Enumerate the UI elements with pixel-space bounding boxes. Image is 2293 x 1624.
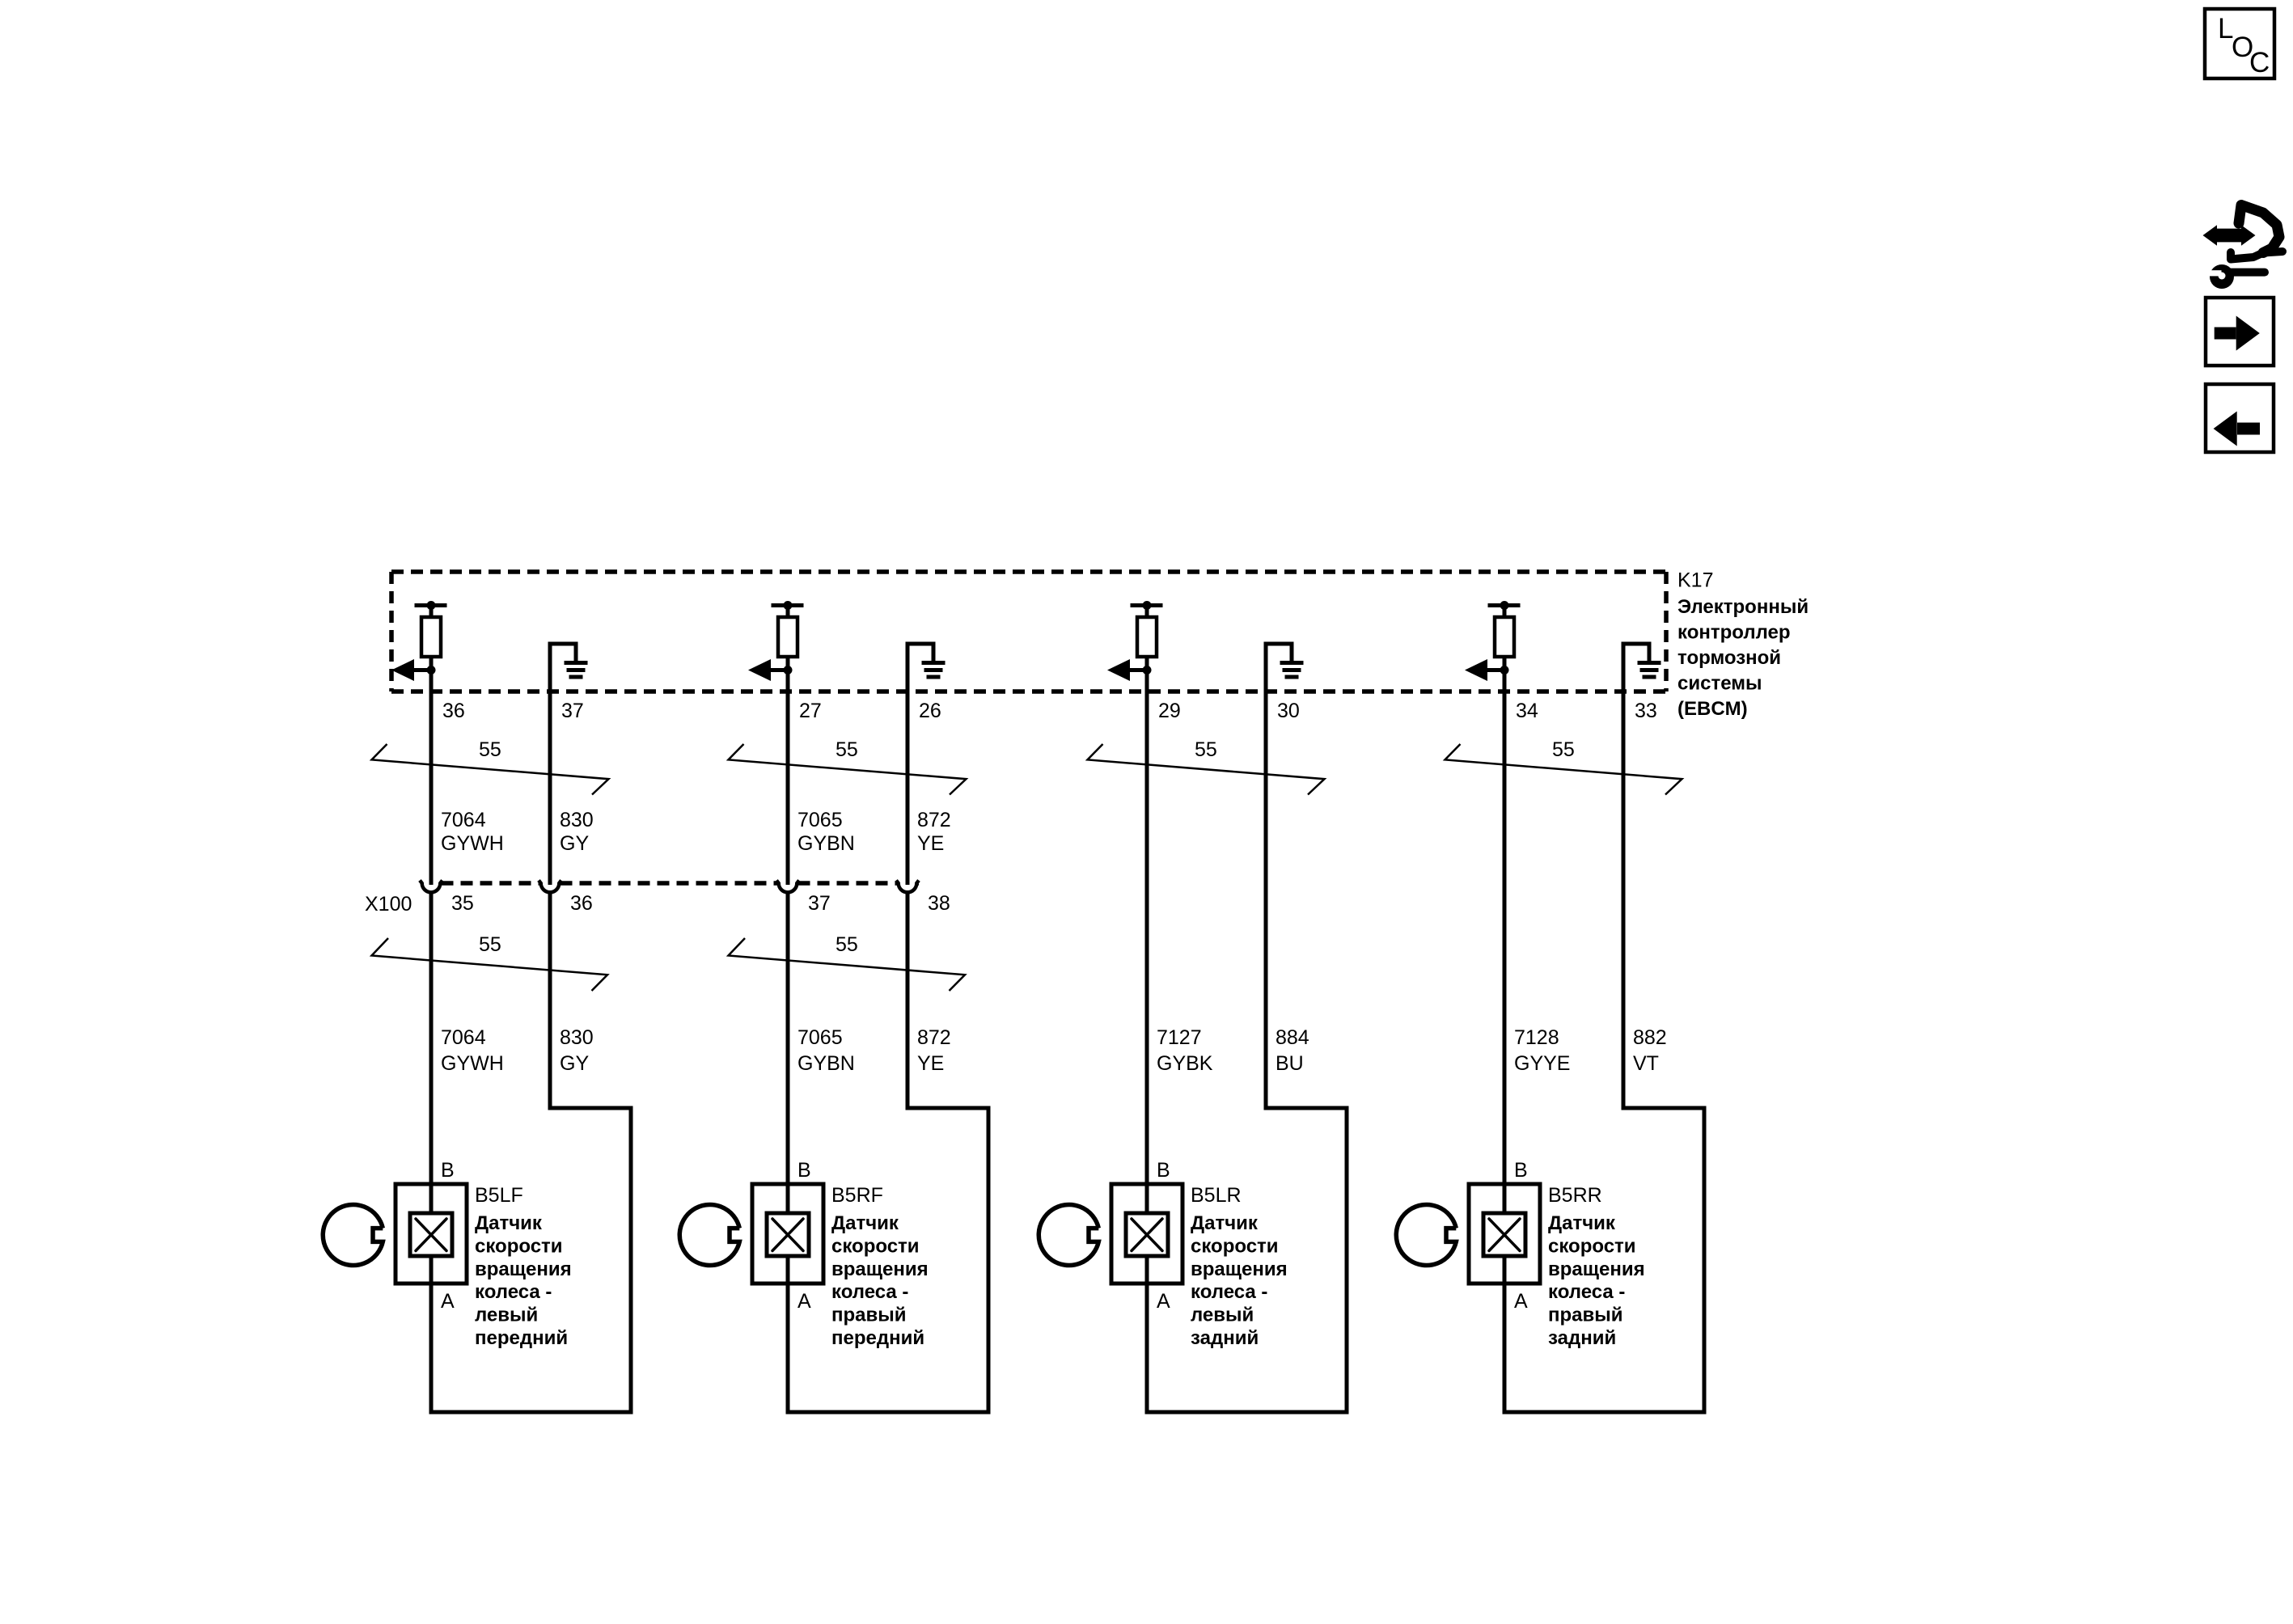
output arrow pair 1 xyxy=(404,668,431,672)
svg-text:левый: левый xyxy=(475,1305,538,1326)
svg-text:задний: задний xyxy=(1191,1327,1259,1349)
wire ground pair 3: down, jog right, down, bottom run to sensor pin A xyxy=(1147,691,1347,1412)
wheel speed sensor B5LF body xyxy=(396,1184,467,1284)
svg-text:7065: 7065 xyxy=(797,1026,843,1049)
harness 55 crossing upper pair 2 xyxy=(729,744,967,795)
svg-text:правый: правый xyxy=(1548,1305,1623,1326)
svg-text:скорости: скорости xyxy=(1548,1235,1636,1257)
svg-text:36: 36 xyxy=(570,892,593,915)
harness 55 crossing upper pair 1 xyxy=(372,744,609,795)
svg-text:27: 27 xyxy=(799,700,822,722)
output arrow pair 4 xyxy=(1478,668,1504,672)
svg-text:колеса -: колеса - xyxy=(1191,1281,1267,1303)
harness 55 crossing lower pair 1 xyxy=(372,938,608,991)
svg-text:B5LF: B5LF xyxy=(475,1184,523,1207)
svg-text:55: 55 xyxy=(836,933,858,956)
svg-text:A: A xyxy=(797,1290,811,1313)
resistor (EBCM internal) pair 1 xyxy=(415,603,447,607)
svg-text:7065: 7065 xyxy=(797,809,843,831)
junction dot pair 2 xyxy=(784,666,793,675)
svg-text:контроллер: контроллер xyxy=(1677,622,1791,644)
svg-text:вращения: вращения xyxy=(831,1258,929,1280)
wheel speed sensor B5LR body xyxy=(1111,1184,1182,1284)
svg-text:GY: GY xyxy=(560,832,589,855)
svg-text:(EBCM): (EBCM) xyxy=(1677,698,1748,720)
svg-text:X100: X100 xyxy=(365,893,412,916)
svg-text:B: B xyxy=(1514,1159,1528,1182)
svg-text:GYWH: GYWH xyxy=(441,1052,504,1075)
svg-text:B: B xyxy=(441,1159,455,1182)
svg-text:K17: K17 xyxy=(1677,569,1713,592)
svg-text:VT: VT xyxy=(1633,1052,1659,1075)
svg-text:вращения: вращения xyxy=(1548,1258,1645,1280)
svg-text:GYYE: GYYE xyxy=(1514,1052,1570,1075)
svg-text:38: 38 xyxy=(928,892,950,915)
tone wheel (notched circle) B5LR xyxy=(1039,1205,1098,1266)
wire ground pair 2 upper segment xyxy=(906,691,910,885)
X100 pin cup on wire 1122 xyxy=(896,881,919,893)
svg-text:830: 830 xyxy=(560,1026,594,1049)
svg-text:GY: GY xyxy=(560,1052,589,1075)
tone wheel (notched circle) B5RR xyxy=(1396,1205,1456,1266)
svg-text:C: C xyxy=(2249,47,2270,78)
harness 55 crossing upper pair 3 xyxy=(1088,744,1325,795)
svg-text:YE: YE xyxy=(917,832,944,855)
wire B (signal) pair 2 upper segment xyxy=(786,691,790,885)
sensor element (boxed X) B5LR xyxy=(1126,1213,1168,1256)
svg-text:55: 55 xyxy=(1552,738,1575,761)
svg-text:Датчик: Датчик xyxy=(831,1212,899,1234)
svg-text:33: 33 xyxy=(1635,700,1657,722)
svg-text:правый: правый xyxy=(831,1305,907,1326)
svg-text:скорости: скорости xyxy=(475,1235,563,1257)
ground symbol (EBCM internal) pair 2 xyxy=(907,644,933,691)
wheel speed sensor B5RF body xyxy=(752,1184,823,1284)
svg-text:37: 37 xyxy=(561,700,584,722)
svg-text:872: 872 xyxy=(917,1026,951,1049)
svg-text:55: 55 xyxy=(479,738,501,761)
svg-text:B5RR: B5RR xyxy=(1548,1184,1602,1207)
junction dot pair 1 xyxy=(427,666,436,675)
svg-text:задний: задний xyxy=(1548,1327,1616,1349)
backward arrow box xyxy=(2206,384,2274,452)
svg-text:системы: системы xyxy=(1677,673,1762,695)
svg-text:30: 30 xyxy=(1277,700,1300,722)
wire ground pair 4: down, jog right, down, bottom run to sensor pin A xyxy=(1504,691,1704,1412)
svg-text:55: 55 xyxy=(479,933,501,956)
svg-text:вращения: вращения xyxy=(475,1258,572,1280)
sensor element (boxed X) B5RF xyxy=(767,1213,809,1256)
wheel speed sensor B5RR body xyxy=(1469,1184,1540,1284)
svg-text:37: 37 xyxy=(808,892,831,915)
wire B pair 2 lower segment xyxy=(786,894,790,1214)
svg-text:колеса -: колеса - xyxy=(1548,1281,1625,1303)
tone wheel (notched circle) B5LF xyxy=(323,1205,383,1266)
forward arrow box xyxy=(2206,298,2274,366)
wire ground pair 2: down, jog right, down, bottom run to sensor pin A xyxy=(788,894,988,1413)
svg-text:7128: 7128 xyxy=(1514,1026,1559,1049)
ground symbol (EBCM internal) pair 3 xyxy=(1266,644,1292,691)
wire A (sensor return) pair 2 xyxy=(786,1256,790,1415)
svg-text:A: A xyxy=(441,1290,455,1313)
wire B (signal) pair 1 upper segment xyxy=(429,691,434,885)
svg-text:36: 36 xyxy=(442,700,465,722)
svg-text:A: A xyxy=(1514,1290,1528,1313)
wire A (sensor return) pair 1 xyxy=(429,1256,434,1415)
harness 55 crossing upper pair 4 xyxy=(1445,744,1682,795)
svg-text:колеса -: колеса - xyxy=(475,1281,552,1303)
svg-text:GYBN: GYBN xyxy=(797,1052,855,1075)
output arrow pair 3 xyxy=(1120,668,1147,672)
resistor (EBCM internal) pair 4 xyxy=(1488,603,1521,607)
junction dot pair 3 xyxy=(1143,666,1152,675)
connector X100 dashed line xyxy=(442,881,540,886)
svg-text:Датчик: Датчик xyxy=(475,1212,543,1234)
svg-text:BU: BU xyxy=(1276,1052,1304,1075)
resistor (EBCM internal) pair 2 xyxy=(772,603,804,607)
svg-text:55: 55 xyxy=(1195,738,1217,761)
resistor (EBCM internal) pair 3 xyxy=(1131,603,1163,607)
svg-text:GYBK: GYBK xyxy=(1157,1052,1213,1075)
svg-text:35: 35 xyxy=(451,892,474,915)
svg-text:34: 34 xyxy=(1516,700,1538,722)
svg-text:колеса -: колеса - xyxy=(831,1281,908,1303)
svg-text:B5RF: B5RF xyxy=(831,1184,883,1207)
svg-text:GYWH: GYWH xyxy=(441,832,504,855)
svg-text:A: A xyxy=(1157,1290,1170,1313)
svg-text:B5LR: B5LR xyxy=(1191,1184,1242,1207)
svg-text:тормозной: тормозной xyxy=(1677,647,1781,669)
wire A (sensor return) pair 3 xyxy=(1145,1256,1149,1415)
svg-text:7064: 7064 xyxy=(441,1026,486,1049)
svg-text:29: 29 xyxy=(1158,700,1181,722)
svg-text:7127: 7127 xyxy=(1157,1026,1202,1049)
sensor element (boxed X) B5RR xyxy=(1483,1213,1525,1256)
svg-text:884: 884 xyxy=(1276,1026,1309,1049)
svg-text:872: 872 xyxy=(917,809,951,831)
X100 pin cup on wire 974 xyxy=(776,881,799,893)
junction dot pair 4 xyxy=(1500,666,1509,675)
svg-text:7064: 7064 xyxy=(441,809,486,831)
svg-text:Датчик: Датчик xyxy=(1548,1212,1616,1234)
ground symbol (EBCM internal) pair 4 xyxy=(1623,644,1649,691)
svg-text:Электронный: Электронный xyxy=(1677,596,1809,618)
svg-text:B: B xyxy=(1157,1159,1170,1182)
X100 pin cup on wire 533 xyxy=(420,881,442,893)
svg-text:B: B xyxy=(797,1159,811,1182)
wire B (signal) pair 4 xyxy=(1503,691,1507,1213)
wire B pair 1 lower segment xyxy=(429,894,434,1214)
svg-text:вращения: вращения xyxy=(1191,1258,1288,1280)
svg-text:830: 830 xyxy=(560,809,594,831)
output arrow pair 2 xyxy=(761,668,788,672)
ground symbol (EBCM internal) pair 1 xyxy=(550,644,576,691)
svg-text:передний: передний xyxy=(831,1327,924,1349)
LOC reference box xyxy=(2205,9,2274,78)
svg-text:передний: передний xyxy=(475,1327,568,1349)
svg-text:882: 882 xyxy=(1633,1026,1667,1049)
svg-text:Датчик: Датчик xyxy=(1191,1212,1259,1234)
wire A (sensor return) pair 4 xyxy=(1503,1256,1507,1415)
sensor element (boxed X) B5LF xyxy=(410,1213,452,1256)
harness routing icon xyxy=(2239,205,2279,253)
svg-text:скорости: скорости xyxy=(831,1235,920,1257)
wire ground pair 1: down, jog right, down, bottom run to sensor pin A xyxy=(431,894,631,1413)
svg-text:YE: YE xyxy=(917,1052,944,1075)
tone wheel (notched circle) B5RF xyxy=(679,1205,739,1266)
svg-text:скорости: скорости xyxy=(1191,1235,1279,1257)
svg-text:левый: левый xyxy=(1191,1305,1254,1326)
harness 55 crossing lower pair 2 xyxy=(729,938,966,991)
EBCM K17 dashed box xyxy=(391,569,1666,574)
svg-text:26: 26 xyxy=(919,700,941,722)
X100 pin cup on wire 680 xyxy=(539,881,561,893)
wire ground pair 1 upper segment xyxy=(548,691,552,885)
wire B (signal) pair 3 xyxy=(1145,691,1149,1213)
svg-text:GYBN: GYBN xyxy=(797,832,855,855)
svg-text:55: 55 xyxy=(836,738,858,761)
